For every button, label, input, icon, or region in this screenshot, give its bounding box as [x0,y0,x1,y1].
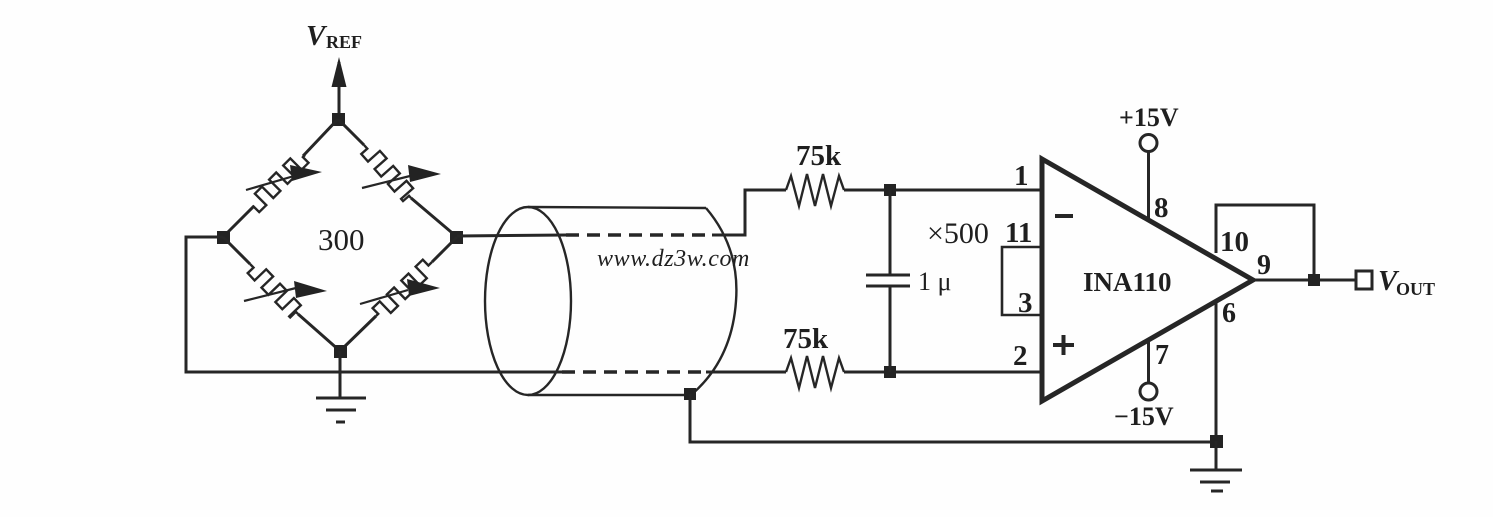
op-amp plus input mark [1053,335,1074,355]
node cable shield bottom [684,388,696,400]
svg-text:2: 2 [1013,340,1028,372]
ground right [1190,441,1242,491]
wire resistor bottom to op-amp pin2 [844,371,1044,374]
svg-text:V: V [306,20,328,52]
node capacitor bottom [884,366,896,378]
wire pin10 feedback to output [1216,205,1314,280]
strain gauge R2 (upper-right) [361,145,441,201]
svg-text:6: 6 [1222,298,1236,329]
wire bridge arm upper-left [223,119,338,237]
strain gauge R3 (lower-left) [244,264,327,317]
wire bridge arm lower-left [223,237,340,351]
wire output [1253,279,1356,282]
node top of bridge [332,113,345,126]
ground under bridge [316,351,366,422]
cable shield left ellipse [485,207,571,395]
op-amp U1 INA110 triangle [1042,159,1253,401]
svg-text:−15V: −15V [1114,402,1174,431]
wire pin6 down [1215,303,1218,441]
svg-text:×500: ×500 [927,217,989,250]
svg-text:www.dz3w.com: www.dz3w.com [597,246,750,272]
svg-text:7: 7 [1155,340,1169,371]
wire pin8 to +15V [1147,152,1150,220]
wire left rail [186,237,562,372]
terminal +15V circle [1140,135,1157,152]
VREF arrow terminal [332,57,347,120]
node ground junction [1210,435,1223,448]
node right of bridge [450,231,463,244]
svg-text:OUT: OUT [1396,279,1435,299]
strain gauge R4 (lower-right) [360,260,440,316]
wire shield to ground rail [690,394,1216,442]
wire pin7 to -15V [1147,340,1150,383]
svg-text:75k: 75k [796,140,842,172]
svg-text:75k: 75k [783,323,829,355]
wire bridge right node to cable [457,235,566,236]
capacitor C1 [866,190,910,372]
svg-text:11: 11 [1005,217,1032,249]
svg-text:1: 1 [1014,160,1029,192]
svg-text:10: 10 [1220,226,1249,258]
node capacitor top [884,184,896,196]
wire bridge arm lower-right [340,237,457,351]
terminal VOUT square [1356,271,1372,289]
resistor 75k top [786,174,844,206]
strain gauge R1 (upper-left) [246,155,322,212]
node bottom of bridge [334,345,347,358]
wire resistor top to op-amp pin1 [844,189,1044,192]
cable shield body [528,207,736,395]
wire cable top to resistor step [712,190,786,235]
gain bracket pins 11-3 [1002,247,1044,315]
op-amp minus input mark [1055,214,1073,218]
svg-text:300: 300 [318,222,365,257]
resistor 75k bottom [786,356,844,388]
svg-text:8: 8 [1154,192,1169,224]
wire cable bottom to resistor [706,371,786,374]
wire dashed inner conductor bottom [562,370,706,373]
wire bridge arm upper-right [338,119,457,237]
label VREF [306,20,362,52]
label VOUT [1378,265,1435,299]
svg-text:+15V: +15V [1119,103,1179,132]
node left of bridge [217,231,230,244]
svg-text:1 μ: 1 μ [918,267,951,296]
svg-text:REF: REF [326,32,362,52]
svg-text:3: 3 [1018,287,1033,319]
terminal -15V circle [1140,383,1157,400]
svg-text:INA110: INA110 [1083,267,1172,297]
node output [1308,274,1320,286]
svg-text:9: 9 [1257,250,1271,281]
wire dashed inner conductor top [566,233,712,236]
